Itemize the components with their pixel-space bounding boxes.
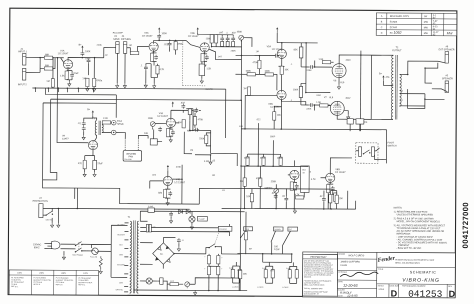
wire V3 out — [209, 47, 241, 60]
heater wires — [140, 223, 229, 236]
svg-text:5.08: 5.08 — [262, 268, 265, 270]
wire corner L3 — [43, 94, 117, 180]
svg-text:CHECKED: CHECKED — [338, 272, 348, 274]
tube V1A 1/2 12AX7 — [57, 49, 72, 68]
resistor R4 100K — [88, 58, 103, 92]
svg-text:.047: .047 — [219, 32, 224, 34]
svg-text:BR1: BR1 — [160, 254, 163, 256]
title block: scale/size/number/rev row — [378, 284, 456, 300]
title block: drawn/checked column — [337, 252, 378, 298]
resistor R24 mix — [199, 133, 211, 146]
wire T1 HV to bridge — [140, 237, 206, 268]
svg-text:10K: 10K — [243, 274, 248, 276]
svg-text:1.5K: 1.5K — [316, 102, 321, 104]
capacitor C10 coupling top — [301, 60, 332, 69]
svg-text:SEND: SEND — [117, 124, 124, 126]
resistor R44 5ohm — [286, 266, 297, 283]
svg-text:INPUT 2: INPUT 2 — [18, 84, 27, 86]
resistor R1 68K — [44, 54, 52, 59]
svg-text:INPUT 1: INPUT 1 — [18, 51, 27, 53]
svg-text:1.5K: 1.5K — [60, 75, 65, 77]
svg-text:220K: 220K — [260, 158, 266, 160]
wire plug to switch — [60, 244, 75, 249]
pilot label box — [197, 216, 207, 221]
ground V7 cathode — [344, 111, 350, 120]
resistor R33 10K — [329, 191, 332, 209]
B+ feed V4A — [171, 102, 190, 119]
resistor R47 10K tail — [273, 99, 282, 129]
capacitor C12 reverb — [78, 118, 93, 140]
svg-text:470K: 470K — [253, 62, 259, 64]
cathode V8B — [327, 182, 337, 209]
capacitor C13 25uF — [83, 160, 103, 176]
wire grid V1 — [52, 57, 63, 59]
svg-text:120V: 120V — [83, 273, 88, 275]
capacitor C14 — [180, 102, 201, 113]
svg-text:BREA, CALIFORNIA 92621: BREA, CALIFORNIA 92621 — [395, 261, 420, 264]
relay box K1 — [347, 119, 353, 131]
svg-text:5 AMP: 5 AMP — [148, 205, 154, 208]
svg-text:250K: 250K — [271, 181, 277, 183]
capacitor C26 ground stub — [195, 154, 216, 164]
speaker phase switch label box S5 — [283, 227, 298, 254]
svg-text:1/2 12AX7: 1/2 12AX7 — [174, 181, 185, 184]
resistor R43 100 1/2W — [249, 246, 280, 251]
input jack J2 — [18, 68, 28, 86]
svg-text:10K: 10K — [284, 69, 289, 71]
cathode network V3 — [201, 52, 209, 67]
svg-text:SCHEMATIC: SCHEMATIC — [410, 270, 437, 274]
svg-text:V5B: V5B — [268, 104, 273, 106]
tube V8A 1/2 12AX7 — [288, 168, 312, 180]
tone capacitor C7 — [226, 32, 230, 46]
ground fx jacks — [116, 53, 127, 88]
svg-text:UNLESS OTHERWISE SPECIFIED: UNLESS OTHERWISE SPECIFIED — [397, 214, 434, 216]
svg-text:1M: 1M — [212, 175, 215, 177]
svg-text:220K: 220K — [244, 158, 250, 160]
relay box K2 — [356, 119, 364, 131]
svg-text:SPEAKER: SPEAKER — [442, 77, 453, 80]
power transformer T1 — [127, 217, 139, 293]
tube V2B 1/2 12AX7 — [186, 33, 209, 52]
tube V8B 1/2 12AX7 — [321, 158, 352, 183]
resistor R26 220K — [244, 154, 250, 166]
svg-text:220K: 220K — [199, 138, 205, 140]
svg-text:100K: 100K — [264, 71, 270, 73]
resistor R10 100K — [206, 35, 214, 43]
cathode network V4A — [166, 127, 174, 142]
svg-text:OUTPUT: OUTPUT — [392, 50, 402, 52]
svg-text:FENDER MUSICAL INSTRUMENTS COR: FENDER MUSICAL INSTRUMENTS CORP — [395, 258, 435, 261]
tone capacitor C6 — [219, 32, 224, 46]
fuse F1 — [86, 244, 111, 258]
svg-text:D: D — [391, 288, 398, 298]
svg-text:TITLE: TITLE — [378, 269, 384, 271]
svg-text:GN2: GN2 — [316, 95, 321, 97]
ground switch S5 — [43, 208, 58, 223]
svg-text:RCA: RCA — [117, 120, 122, 123]
wire to T1 primary — [111, 225, 128, 277]
svg-text:1.) RESISTORS ARE 1/4W FILM: 1.) RESISTORS ARE 1/4W FILM — [394, 210, 428, 213]
svg-text:SWITCH: SWITCH — [388, 145, 397, 147]
svg-text:4.7K: 4.7K — [311, 179, 316, 181]
resistor R13 470K — [252, 55, 261, 75]
dotted gang line — [183, 41, 206, 85]
wire corner L1 — [45, 47, 116, 95]
svg-text:PART/DRAWING NUMBER: PART/DRAWING NUMBER — [402, 285, 426, 288]
bias pot — [185, 282, 195, 288]
tremolo intensity control box — [301, 166, 317, 198]
svg-text:25uF: 25uF — [97, 163, 103, 165]
svg-text:3.3M: 3.3M — [204, 161, 209, 163]
svg-text:220K: 220K — [306, 108, 312, 110]
power tube V7 6L6 — [324, 97, 345, 115]
resistor R38 5ohm — [257, 262, 292, 289]
svg-text:F1 4A SB: F1 4A SB — [90, 255, 98, 258]
svg-text:P/N 0228: P/N 0228 — [124, 159, 131, 161]
resistor R34 10K — [330, 191, 343, 209]
svg-text:SW1 POWER: SW1 POWER — [72, 255, 83, 257]
capacitor C15 mix — [194, 128, 199, 132]
svg-text:2.) PINS 4,5 & 6 OF V4 USE 12A: 2.) PINS 4,5 & 6 OF V4 USE 12AT7WA — [394, 217, 435, 220]
vertical document number 0041727000 — [461, 202, 470, 249]
svg-text:MONTGOMERY, ST: MONTGOMERY, ST — [304, 293, 319, 295]
surge protector MOV — [33, 198, 49, 218]
cathode network V2 — [150, 51, 158, 65]
svg-text:100K: 100K — [148, 118, 154, 120]
bias capacitor C25 — [157, 278, 167, 290]
resistor R32 10K — [246, 189, 253, 209]
ground mains — [51, 223, 60, 228]
svg-text:470K: 470K — [198, 119, 204, 121]
cathode network V1: resistor R5 1.5K — [60, 69, 72, 82]
wire oscillator bus — [182, 188, 356, 209]
footswitch dashed box — [356, 142, 397, 163]
svg-text:12-9-93: 12-9-93 — [347, 294, 358, 298]
wire mix to tremolo — [186, 109, 238, 166]
svg-text:IMPEDANCE:: IMPEDANCE: — [396, 233, 411, 236]
wire staircase to power section — [42, 172, 182, 204]
wire long drop to reverb grid — [56, 57, 89, 143]
svg-text:68K: 68K — [45, 65, 50, 67]
footswitch jack B — [371, 147, 379, 160]
svg-text:100: 100 — [153, 227, 156, 229]
svg-text:100K: 100K — [293, 89, 299, 91]
B+ feed V2 — [154, 27, 168, 42]
wire mains top run — [43, 188, 190, 210]
wire corner L2 — [50, 99, 241, 174]
svg-text:500P: 500P — [270, 136, 276, 138]
wire jack tips to grid node — [26, 57, 44, 73]
tube V5A 1/2 12AX7 — [267, 45, 287, 58]
svg-text:100K: 100K — [162, 33, 168, 35]
resistor R23 470K — [178, 113, 203, 128]
B+ feed V3 — [197, 27, 217, 34]
svg-text:ECN-R: ECN-R — [390, 27, 398, 29]
resistor R45 5ohm — [282, 262, 298, 289]
title block: Fender logo and company — [377, 255, 456, 267]
capacitor C20 — [177, 238, 184, 251]
jewel lamp DS2 — [140, 278, 157, 284]
svg-text:JAMES GUFFORD: JAMES GUFFORD — [340, 260, 360, 263]
svg-text:250P: 250P — [85, 58, 91, 60]
B+ feed reverb transformer — [87, 109, 97, 120]
svg-text:REF E.C.: REF E.C. — [11, 286, 19, 288]
wire V4B plate to tremolo bus — [172, 165, 183, 204]
speaker phase switch label box S3 — [240, 227, 252, 238]
resistor R35 5ohm — [229, 266, 240, 283]
wire V4B grid — [150, 181, 163, 189]
resistor R19 1.5K screen V7 — [316, 102, 331, 107]
svg-text:3.) ALL VOLTAGES MEASURED WITH: 3.) ALL VOLTAGES MEASURED WITH RESPECT — [394, 224, 446, 227]
svg-text:L-CHAS: L-CHAS — [282, 286, 289, 289]
bridge rectifier BR1 — [153, 243, 175, 265]
svg-text:PROTECTION: PROTECTION — [33, 201, 48, 203]
capacitor C9 grid V5A — [274, 54, 280, 58]
main speaker jack J6 — [442, 75, 453, 92]
misc value labels — [96, 45, 369, 193]
title block — [303, 252, 456, 298]
capacitor C11 coupling bottom — [301, 101, 330, 110]
svg-text:1M: 1M — [256, 51, 259, 53]
capacitor C5 .1 — [140, 64, 151, 88]
svg-text:BLK/WHT: BLK/WHT — [117, 234, 125, 236]
thermistor RT1 — [99, 256, 102, 274]
svg-text:.022: .022 — [180, 102, 185, 104]
svg-text:5.08: 5.08 — [286, 268, 289, 270]
fuse F2 5AMP — [148, 205, 154, 212]
cathode chain V5 — [278, 58, 289, 90]
B+ center tap T2 — [379, 73, 393, 85]
svg-text:.022: .022 — [231, 32, 236, 34]
svg-text:450V: 450V — [346, 60, 352, 62]
resistor R3 1M — [82, 78, 89, 91]
ext speaker jack J5 — [439, 46, 455, 63]
resistor R17 220K — [293, 83, 303, 105]
resistor R18 1.5K screen V6 — [319, 59, 334, 64]
svg-text:P.LAMP: P.LAMP — [199, 218, 206, 221]
ground bus tremolo — [222, 208, 356, 214]
resistor R46 1M grid V5B — [243, 87, 277, 129]
svg-text:V2A: V2A — [144, 32, 149, 35]
reverb pan box — [123, 151, 141, 162]
svg-text:TO GROUND USING A DVM AT 120 V: TO GROUND USING A DVM AT 120 VOLT — [397, 227, 441, 230]
svg-text:BLK/RED: BLK/RED — [118, 224, 126, 226]
svg-text:100K: 100K — [277, 158, 283, 160]
svg-text:1/2 12AX7: 1/2 12AX7 — [58, 52, 69, 55]
choke L1 — [221, 254, 247, 291]
resistor R48 slope — [221, 41, 235, 46]
svg-text:100V: 100V — [17, 272, 22, 274]
svg-text:120VAC: 120VAC — [33, 243, 42, 246]
resistor R30 470K — [256, 166, 262, 208]
wire attenuator bus — [237, 208, 292, 262]
svg-text:RELEASED COPY: RELEASED COPY — [390, 15, 410, 18]
svg-text:1/2 12AX7: 1/2 12AX7 — [188, 35, 199, 38]
filter capacitor C24 — [209, 266, 223, 290]
svg-text:DATE: DATE — [338, 294, 343, 297]
svg-text:SEND: SEND — [113, 39, 120, 41]
svg-text:GN2a: GN2a — [96, 80, 103, 82]
svg-text:L-CHAS: L-CHAS — [257, 286, 264, 289]
wire V4A out mix — [175, 121, 193, 131]
svg-text:4.7K: 4.7K — [295, 194, 300, 196]
resistor R8 470K — [174, 41, 183, 54]
svg-text:- BIAS SET TO -48 VDC: - BIAS SET TO -48 VDC — [396, 247, 421, 250]
resistor R37 5ohm — [262, 266, 273, 283]
reverb pot — [148, 118, 167, 130]
speaker phase switch label box S4 — [271, 227, 283, 254]
svg-text:1M: 1M — [82, 78, 85, 80]
title block: proprietary box — [303, 254, 338, 296]
ground bus power — [134, 289, 247, 295]
svg-text:5.08: 5.08 — [270, 270, 273, 272]
svg-text:1/2 12AX7: 1/2 12AX7 — [335, 171, 346, 174]
resistor R15 100K — [235, 71, 265, 76]
tone capacitor C8 — [216, 32, 241, 46]
svg-text:V5A: V5A — [267, 45, 272, 48]
svg-text:22uF: 22uF — [73, 73, 79, 75]
svg-text:.022: .022 — [164, 44, 169, 46]
svg-text:L-CHAS: L-CHAS — [232, 286, 239, 289]
resistor R11 100K — [205, 35, 223, 48]
speed pot — [264, 181, 278, 208]
svg-text:1M: 1M — [240, 181, 243, 183]
tube V4A 1/2 12AX7 — [157, 112, 175, 127]
svg-text:1.5K: 1.5K — [319, 59, 324, 61]
wire volume line to V5A — [235, 55, 275, 102]
svg-text:10K: 10K — [144, 133, 149, 135]
svg-text:V8B: V8B — [335, 169, 340, 171]
svg-text:NOTES:: NOTES: — [394, 207, 403, 209]
capacitor C17 — [282, 188, 289, 208]
resistor R29 1M — [240, 166, 247, 208]
resistor R9 4.7K — [151, 64, 165, 88]
resistor R36 5ohm — [232, 262, 241, 289]
svg-text:V4A: V4A — [159, 112, 164, 115]
svg-text:10K: 10K — [277, 115, 282, 117]
bias resistor R42 — [167, 280, 183, 286]
capacitor C18 — [319, 191, 326, 209]
cathode network V8A — [290, 179, 299, 208]
title block: title area — [377, 269, 456, 284]
svg-text:1/2W: 1/2W — [274, 249, 280, 251]
svg-text:DRAWN: DRAWN — [338, 253, 345, 256]
pilot lamp DS1 — [189, 211, 195, 229]
wire V1 plate to node — [68, 57, 104, 60]
svg-text:240V: 240V — [61, 273, 66, 275]
rca jack reverb return — [102, 130, 116, 135]
svg-text:470K: 470K — [176, 167, 182, 169]
filter capacitor C21 — [204, 254, 210, 266]
svg-text:DEMAND.: DEMAND. — [304, 275, 312, 278]
svg-text:MODEL, S/N ON COMPONENT MODELS: MODEL, S/N ON COMPONENT MODELS — [397, 221, 441, 223]
svg-text:V2B: V2B — [190, 33, 195, 35]
power switch SW1 — [72, 242, 91, 257]
svg-text:10K: 10K — [339, 198, 344, 200]
cathode network V9: resistor R21 — [78, 150, 95, 169]
resistor R27 220K — [260, 154, 266, 166]
svg-text:EXT: EXT — [289, 229, 292, 231]
reverb transformer T3 — [92, 118, 103, 135]
power tube V6 6L6 — [332, 64, 346, 85]
wire fx return to V2 grid — [127, 46, 149, 55]
resistor R3b 1M — [46, 58, 54, 88]
svg-text:10K: 10K — [246, 196, 251, 198]
svg-text:WOLF G.(REV): WOLF G.(REV) — [348, 255, 364, 257]
death cap drop — [62, 251, 65, 260]
wire V6 plate to OT — [339, 55, 371, 64]
svg-text:1M: 1M — [243, 88, 246, 90]
wire footswitch feed — [241, 128, 387, 163]
footswitch jack A — [356, 147, 371, 157]
svg-text:MIX: MIX — [187, 131, 192, 133]
wire V7 plate to OT — [337, 116, 371, 120]
export voltage table — [9, 270, 98, 295]
filter capacitor C23 — [204, 266, 210, 290]
svg-text:BLK/GRN: BLK/GRN — [117, 264, 125, 266]
svg-text:- LINE VOLTAGE AT 120VAC 60HZ: - LINE VOLTAGE AT 120VAC 60HZ — [396, 236, 433, 239]
svg-text:230V: 230V — [39, 273, 44, 275]
wire V2 plate line — [154, 40, 187, 42]
tube V9 reverb driver 12AT7 — [62, 135, 98, 149]
svg-text:- ALL CHANNEL CONTROLS AT FULL: - ALL CHANNEL CONTROLS AT FULL CCW — [396, 238, 443, 241]
resistor R22 plate V4A — [188, 109, 198, 121]
svg-text:TREM: TREM — [245, 229, 250, 231]
resistor R16 100K — [264, 71, 277, 91]
ground V6 cathode — [337, 78, 340, 90]
svg-text:1.5K: 1.5K — [206, 68, 211, 70]
T1 primary tap stubs — [124, 223, 128, 292]
resistor R14 220K — [294, 43, 303, 67]
capacitor C2 22uF — [70, 71, 79, 80]
resistor R2 68K — [44, 58, 55, 70]
svg-text:5.08: 5.08 — [229, 268, 232, 270]
standby switch SW2 — [206, 226, 232, 254]
treble pot — [237, 32, 252, 47]
T1 tap labels — [116, 224, 126, 291]
svg-text:- DC VOLTAGES MEASURED WITH NO: - DC VOLTAGES MEASURED WITH NO SIGNAL — [396, 241, 447, 244]
svg-text:V1A: V1A — [60, 49, 65, 52]
wire T2 secondary taps — [399, 74, 425, 106]
tremolo bus wire — [240, 100, 309, 209]
svg-text:INT: INT — [302, 172, 305, 174]
svg-text:250K: 250K — [237, 32, 243, 34]
svg-text:TAB NO. 028/58/90 GRS: TAB NO. 028/58/90 GRS — [304, 287, 324, 290]
filter capacitor C22 — [217, 254, 224, 266]
svg-text:1M: 1M — [129, 45, 132, 47]
svg-text:250K: 250K — [231, 50, 237, 52]
fx loop send jack J3 — [113, 33, 124, 54]
ground V1 cathode — [68, 82, 71, 87]
svg-text:BREA, CALIFORNIA 92621: BREA, CALIFORNIA 92621 — [304, 283, 325, 286]
svg-text:DWG SIZE: DWG SIZE — [390, 285, 400, 287]
svg-text:SCALE: SCALE — [378, 284, 385, 287]
svg-text:041253: 041253 — [408, 289, 443, 300]
resistor R12 tail — [199, 62, 212, 84]
svg-text:1/2 12AX7: 1/2 12AX7 — [157, 115, 168, 118]
tube V2A 1/2 12AX7 — [142, 32, 159, 52]
tube V5B 1/2 12AX7 — [268, 90, 286, 109]
svg-text:12-20-93: 12-20-93 — [343, 284, 357, 288]
fx loop return jack J4 — [121, 36, 131, 53]
diode D2 — [186, 210, 190, 214]
svg-text:PRESENT: PRESENT — [398, 245, 409, 247]
wire PI bottom out — [281, 83, 330, 101]
capacitor C19 — [169, 211, 173, 223]
svg-text:1/2 12AX7: 1/2 12AX7 — [272, 48, 283, 51]
resistor R41 — [244, 212, 247, 254]
